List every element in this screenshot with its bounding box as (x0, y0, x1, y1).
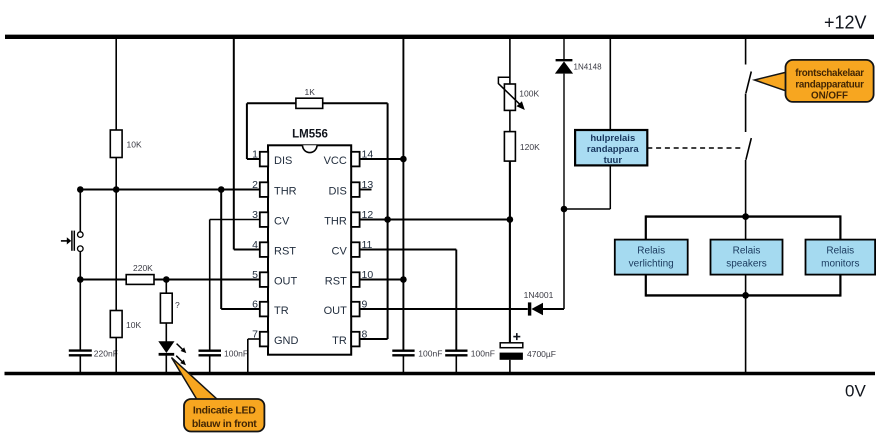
wire: CV1 cap to 0V (209, 355, 211, 373)
svg-text:THR: THR (324, 216, 347, 228)
pin 13 DIS (328, 179, 373, 198)
wire: THR horizontal line (pin2 row) (80, 189, 260, 191)
svg-text:VCC: VCC (324, 155, 347, 167)
diode 1N4148 (555, 60, 602, 73)
svg-text:speakers: speakers (726, 259, 767, 270)
svg-text:+12V: +12V (824, 13, 867, 33)
svg-text:2: 2 (252, 179, 258, 191)
dashed link hulprelais to switch (647, 147, 742, 149)
svg-text:220K: 220K (133, 263, 153, 273)
svg-text:Relais: Relais (826, 246, 854, 257)
svg-text:5: 5 (252, 269, 258, 281)
wire: lower 10K to 0V (115, 338, 117, 374)
node dot (403.4,279.5) (400, 276, 407, 283)
pin 10 RST (325, 269, 374, 288)
wire: between switches (745, 94, 747, 133)
svg-text:1N4148: 1N4148 (574, 63, 603, 72)
svg-text:0V: 0V (845, 382, 866, 401)
svg-text:100nF: 100nF (224, 349, 248, 359)
node dot (221.2,189.5) (218, 186, 225, 193)
pin 14 VCC (324, 149, 374, 168)
+12V rail (5, 35, 874, 39)
pin 7 GND (252, 329, 298, 348)
node dot (403.4,159) (400, 156, 407, 163)
node dot (745.6,295.4) (742, 292, 749, 299)
svg-text:6: 6 (252, 299, 258, 311)
wire: +12V to 1N4148 (563, 38, 565, 59)
wire: CV2 (pin11) to 100nF (360, 250, 457, 351)
pin 5 OUT (252, 269, 297, 288)
capacitor 100nF (CV2) (445, 349, 495, 359)
wire: RST2 (pin10) to +12V column (360, 279, 404, 281)
wire: R10K to THR node (115, 158, 117, 190)
wire: LED to 0V (165, 354, 167, 374)
wire: resistor to LED (165, 323, 167, 342)
resistor 1K (296, 87, 323, 108)
resistor 10K (lower) (110, 311, 141, 338)
wire: CV1 (pin3) to 100nF (210, 220, 261, 351)
wire: GND1 (pin7) to 0V (248, 339, 261, 374)
switch contact 1 (746, 72, 751, 94)
capacitor 4700uF electrolytic (500, 333, 556, 360)
wire: hulprelais to flyback node (564, 166, 610, 209)
svg-text:TR: TR (332, 335, 347, 347)
svg-text:GND: GND (274, 335, 299, 347)
svg-text:RST: RST (325, 276, 347, 288)
pin 8 TR (332, 329, 367, 348)
pin 3 CV (252, 209, 290, 228)
+12V label (824, 13, 867, 33)
wire: THR2 node down to electrolytic (509, 220, 511, 343)
wire: 1K to THR2 line A (323, 103, 388, 339)
pushbutton switch S1 (61, 231, 83, 252)
switch contact 2 (746, 138, 751, 160)
resistor R 10K (top left) (110, 130, 142, 158)
svg-text:CV: CV (274, 216, 290, 228)
svg-text:DIS: DIS (328, 186, 346, 198)
wire: +12V decoupling column (402, 38, 404, 350)
pin 12 THR (324, 209, 373, 228)
callout Indicatie LED blauw in front (172, 358, 265, 432)
svg-text:100nF: 100nF (471, 349, 495, 359)
wire: stub box3 (839, 215, 841, 296)
pin 11 CV (332, 239, 373, 258)
svg-text:DIS: DIS (274, 155, 292, 167)
wire: THR2 (pin12) row (360, 219, 510, 221)
node dot (745.6,216.6) (742, 213, 749, 220)
svg-text:tuur: tuur (604, 155, 623, 166)
svg-text:220nF: 220nF (94, 349, 118, 359)
svg-text:Indicatie LED: Indicatie LED (193, 405, 256, 417)
wire: 1N4001 to flyback node (543, 209, 564, 309)
relay box Relais monitors (806, 240, 876, 275)
svg-text:hulprelais: hulprelais (590, 133, 635, 144)
wire: relay center column (745, 217, 747, 296)
diode 1N4001 (524, 290, 554, 316)
svg-text:OUT: OUT (324, 305, 348, 317)
svg-text:THR: THR (274, 186, 297, 198)
wire: switch bottom (79, 252, 81, 280)
svg-text:OUT: OUT (274, 276, 298, 288)
pin 4 RST (252, 239, 296, 258)
svg-text:3: 3 (252, 209, 258, 221)
svg-text:4700µF: 4700µF (527, 349, 556, 359)
node dot (116.2,189.5) (113, 186, 120, 193)
svg-text:?: ? (175, 300, 180, 310)
svg-text:7: 7 (252, 329, 258, 341)
LED D1 (158, 341, 186, 365)
svg-text:blauw in front: blauw in front (192, 418, 257, 430)
node dot (80.3,189.5) (77, 186, 84, 193)
svg-text:frontschakelaar: frontschakelaar (795, 68, 864, 79)
relay box Relais speakers (711, 240, 783, 275)
capacitor 100nF (decoupling) (392, 349, 442, 359)
node dot (509.9,219.5) (507, 216, 514, 223)
svg-text:randappara: randappara (587, 144, 639, 155)
svg-text:randapparatuur: randapparatuur (795, 80, 864, 91)
wire: pin 13 stub (360, 189, 372, 191)
relay bottom bus (646, 294, 841, 296)
pin 9 OUT (324, 299, 368, 318)
pin 2 THR (252, 179, 297, 198)
wire: main switch column top (745, 38, 747, 65)
wire: CV2 cap to 0V (455, 355, 457, 373)
wire: OUT1 row (pin5) (80, 279, 260, 281)
svg-text:1: 1 (252, 149, 258, 161)
0V label (845, 382, 866, 401)
wire: +12V to RST1 (pin4) (234, 38, 261, 250)
wire: stub box1 (645, 215, 647, 296)
capacitor 220nF (69, 349, 118, 359)
wire: lower 10K top lead (115, 190, 117, 311)
svg-text:8: 8 (362, 329, 368, 341)
svg-text:1N4001: 1N4001 (524, 290, 554, 300)
capacitor 100nF (CV1) (199, 349, 249, 359)
relay box hulprelais randapparatuur (575, 130, 647, 166)
wire: +12V to hulprelais (609, 38, 611, 130)
svg-text:LM556: LM556 (292, 129, 328, 141)
wire: switch top (79, 190, 81, 232)
svg-text:CV: CV (332, 246, 348, 258)
svg-text:monitors: monitors (821, 259, 859, 270)
0V rail (5, 372, 876, 376)
wire: left column from +12V to R 10K (115, 38, 117, 130)
svg-text:Relais: Relais (733, 246, 761, 257)
wire: +12V to potentiometer (509, 38, 511, 84)
potentiometer 100K (498, 77, 539, 110)
wire: 220nF to 0V (79, 355, 81, 373)
node dot (166.3,279.5) (163, 276, 170, 283)
relay box Relais verlichting (615, 240, 688, 275)
resistor 120K (504, 132, 540, 162)
wire: OUT2 (pin9) row (360, 308, 528, 310)
node dot (80.3,279.5) (77, 276, 84, 283)
wire: ? resistor top lead (165, 280, 167, 294)
callout frontschakelaar ON/OFF (755, 60, 874, 102)
svg-text:100K: 100K (519, 89, 539, 99)
wire: pot to 120K (509, 110, 511, 131)
pin 6 TR (252, 299, 289, 318)
resistor 220K (126, 263, 154, 284)
svg-text:ON/OFF: ON/OFF (811, 91, 848, 102)
svg-text:100nF: 100nF (418, 349, 442, 359)
svg-text:10K: 10K (127, 140, 142, 150)
pin 1 DIS (252, 149, 292, 168)
node dot (564,209) (561, 206, 568, 213)
wire: relay bus to 0V (745, 295, 747, 373)
wire: switch to relay bus (745, 160, 747, 217)
svg-text:10K: 10K (126, 320, 141, 330)
wire: 1K loop from pin1 (247, 103, 296, 159)
svg-text:Relais: Relais (637, 246, 665, 257)
svg-text:1K: 1K (305, 87, 316, 97)
relay top bus (646, 215, 841, 217)
resistor ? (LED series) (160, 293, 180, 323)
wire: decoupling cap to 0V (402, 355, 404, 373)
svg-text:4: 4 (252, 239, 258, 251)
IC U1 LM556 body (268, 129, 351, 355)
node dot (387.6,219.5) (384, 216, 391, 223)
wire: VCC (pin14) to +12V column (360, 158, 404, 160)
wire: 1N4148 to node (563, 74, 565, 209)
wire: 220nF cap top lead (79, 280, 81, 351)
wire: electrolytic to 0V (509, 360, 511, 374)
wire: 120K to THR2 node (509, 161, 511, 219)
svg-text:verlichting: verlichting (629, 259, 674, 270)
wire: TR1 branch (pin6) (221, 190, 260, 310)
svg-text:TR: TR (274, 305, 289, 317)
svg-text:RST: RST (274, 246, 296, 258)
svg-text:120K: 120K (520, 142, 540, 152)
